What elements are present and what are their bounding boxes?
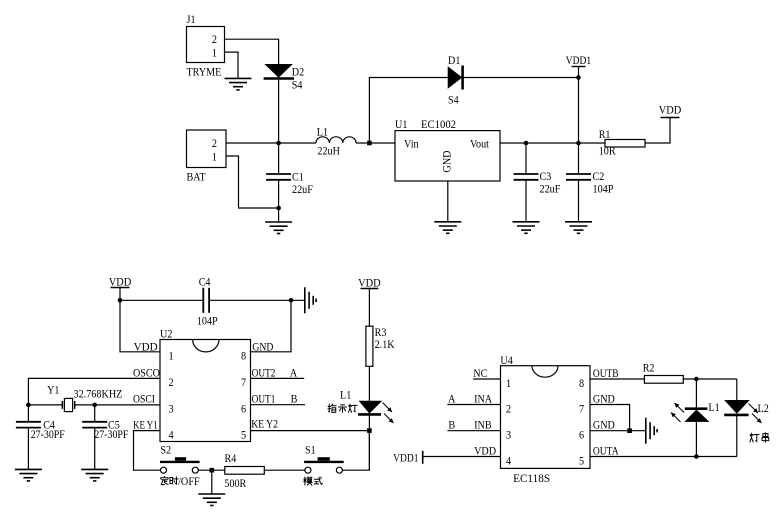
svg-text:/OFF: /OFF xyxy=(178,474,200,488)
svg-text:OUTA: OUTA xyxy=(593,443,619,457)
node L1/D1/U1 junction xyxy=(367,141,372,146)
wire R2 to LED L2 top xyxy=(683,378,737,380)
svg-text:D2: D2 xyxy=(292,65,304,79)
svg-text:VDD1: VDD1 xyxy=(566,53,591,67)
svg-text:22uF: 22uF xyxy=(292,182,313,196)
ground (C1) xyxy=(265,222,292,234)
resistor R4 500R xyxy=(224,451,264,490)
svg-text:22uF: 22uF xyxy=(540,181,561,195)
wire R4 to S1 xyxy=(264,469,305,471)
ground (C4) xyxy=(15,469,42,481)
connector J1 xyxy=(187,12,225,79)
svg-text:KE Y1: KE Y1 xyxy=(133,418,158,432)
node C1/BAT1 junction xyxy=(276,206,281,211)
wire U2 pin8 up to ground rail xyxy=(251,300,292,352)
wire R1 to VDD flag xyxy=(645,118,670,144)
label lamp string (Chinese 灯串) xyxy=(750,433,769,443)
wire U4 pin2 INA net A xyxy=(447,391,500,405)
svg-text:104P: 104P xyxy=(593,181,614,195)
resistor R1 10R xyxy=(599,127,645,158)
svg-text:2: 2 xyxy=(506,402,511,416)
svg-text:L2: L2 xyxy=(758,401,769,415)
svg-text:J1: J1 xyxy=(187,12,196,26)
svg-text:500R: 500R xyxy=(224,476,246,490)
svg-text:GND: GND xyxy=(593,391,615,405)
svg-text:3: 3 xyxy=(506,428,511,442)
wire U2 pin6 OUT1 net B xyxy=(251,392,306,406)
LED L1 (reverse) xyxy=(671,379,720,457)
inductor L1 22uH xyxy=(316,125,395,158)
capacitor C4 104P (decoupling) xyxy=(197,275,218,328)
svg-text:OUTB: OUTB xyxy=(593,366,619,380)
svg-text:27-30PF: 27-30PF xyxy=(31,427,65,441)
svg-text:EC118S: EC118S xyxy=(513,471,550,485)
node R4/ground junction xyxy=(210,468,215,473)
svg-text:7: 7 xyxy=(241,375,246,389)
svg-text:4: 4 xyxy=(168,427,173,441)
diode D1 S4 xyxy=(448,53,463,107)
svg-text:BAT: BAT xyxy=(187,170,207,184)
capacitor C4 27-30PF xyxy=(16,405,65,470)
svg-text:1: 1 xyxy=(212,46,217,60)
svg-text:22uH: 22uH xyxy=(317,144,340,158)
capacitor C3 22uF xyxy=(514,141,561,222)
ground (right of C4, rotated) xyxy=(305,287,316,313)
svg-text:VDD: VDD xyxy=(358,276,381,290)
ground (C2) xyxy=(565,222,592,234)
wire U4 pin1 NC stub xyxy=(473,366,500,380)
svg-text:GND: GND xyxy=(440,150,454,172)
node GND pins junction xyxy=(627,428,632,433)
svg-text:L1: L1 xyxy=(340,387,351,401)
wire S1 up to KE Y2 node xyxy=(342,431,369,471)
svg-text:1: 1 xyxy=(168,349,173,363)
svg-text:2: 2 xyxy=(212,136,217,150)
svg-text:A: A xyxy=(290,365,298,379)
svg-text:VDD1: VDD1 xyxy=(393,450,418,464)
label indicator LED (Chinese) xyxy=(328,404,357,412)
svg-text:D1: D1 xyxy=(448,53,460,67)
resistor R2 xyxy=(643,360,684,383)
node VDD1/D1 junction xyxy=(576,75,581,80)
ground (S2/R4) xyxy=(198,494,225,506)
svg-text:1: 1 xyxy=(506,376,511,390)
ground (C5) xyxy=(81,469,108,481)
node R2/L1 junction xyxy=(694,377,699,382)
svg-text:104P: 104P xyxy=(197,313,218,327)
wire U2 pin2 OSCO to crystal node xyxy=(28,365,160,405)
wire U4 pin5 OUTA to LEDs xyxy=(590,443,737,457)
pin label VDD (U2 pin1) xyxy=(134,340,158,354)
wire VDD down to U2 pin1 xyxy=(120,300,160,352)
svg-text:C4: C4 xyxy=(199,275,211,289)
svg-text:VDD: VDD xyxy=(134,340,158,354)
svg-text:6: 6 xyxy=(241,402,246,416)
LED L1 indicator xyxy=(340,387,394,470)
power VDD1 flag (U4 pin4) xyxy=(393,443,500,464)
svg-text:OSCI: OSCI xyxy=(133,392,155,406)
node KE Y2 / LED / S1 junction xyxy=(367,428,372,433)
svg-text:S1: S1 xyxy=(305,443,316,457)
switch S2 xyxy=(160,443,200,474)
IC U2 xyxy=(160,327,251,442)
wire D1 cathode to VDD1 node xyxy=(463,77,579,79)
svg-text:32.768KHZ: 32.768KHZ xyxy=(74,387,123,401)
label S2 (Chinese 定时/OFF) xyxy=(161,474,200,488)
svg-text:A: A xyxy=(448,391,456,405)
node VDD/U2 pin1 junction xyxy=(118,298,123,303)
wire U2 pin4 KE Y1 down to S2 xyxy=(133,418,161,471)
svg-text:GND: GND xyxy=(593,418,615,432)
svg-text:OSCO: OSCO xyxy=(133,365,160,379)
resistor R3 2.1K xyxy=(366,325,395,366)
node Y1 right / C5 xyxy=(92,403,97,408)
wire BAT pin2 to node xyxy=(226,142,316,144)
wire S2 to R4 xyxy=(198,469,225,471)
wire node down to ground xyxy=(211,470,213,494)
svg-text:S4: S4 xyxy=(448,93,459,107)
svg-text:OUT1: OUT1 xyxy=(252,392,276,406)
ground (U1) xyxy=(434,222,461,234)
switch S1 xyxy=(304,443,344,474)
wire U2 pin7 OUT2 net A xyxy=(251,365,305,379)
svg-text:NC: NC xyxy=(473,366,487,380)
svg-text:L1: L1 xyxy=(708,400,719,414)
wire U2 pin5 KE Y2 to LED node xyxy=(251,417,370,431)
svg-text:Vout: Vout xyxy=(470,137,490,151)
svg-text:R1: R1 xyxy=(599,127,611,141)
wire U2 pin3 OSCI to crystal right node xyxy=(95,392,160,406)
wire U1 Vout to rail xyxy=(500,142,605,144)
svg-text:3: 3 xyxy=(168,402,173,416)
svg-text:2: 2 xyxy=(168,375,173,389)
wire node up to D1 anode xyxy=(369,78,448,144)
wire J1 pin2 to D2 xyxy=(225,39,279,64)
svg-text:4: 4 xyxy=(506,454,511,468)
svg-text:10R: 10R xyxy=(599,144,616,158)
svg-text:TRYME: TRYME xyxy=(187,65,222,79)
capacitor C1 22uF xyxy=(266,143,313,222)
svg-text:R4: R4 xyxy=(225,451,237,465)
svg-text:B: B xyxy=(448,418,455,432)
svg-text:VDD: VDD xyxy=(109,275,132,289)
svg-text:7: 7 xyxy=(579,402,584,416)
wire U4 pin6 GND to ground xyxy=(590,418,646,432)
svg-text:OUT2: OUT2 xyxy=(252,365,276,379)
svg-text:5: 5 xyxy=(241,427,246,441)
label S1 (Chinese 模式) xyxy=(304,477,323,485)
wire BAT pin1 down to C1 ground node xyxy=(226,156,279,208)
svg-text:6: 6 xyxy=(579,428,584,442)
svg-text:U4: U4 xyxy=(500,353,512,367)
wire VDD rail to C4 xyxy=(120,299,203,301)
wire R3 to LED L1 xyxy=(368,366,370,401)
wire U1 GND pin down xyxy=(447,181,449,222)
svg-text:S2: S2 xyxy=(160,443,171,457)
wire U4 pin7 GND to pin6 xyxy=(590,391,630,430)
svg-text:R2: R2 xyxy=(643,360,655,374)
connector J2 BAT xyxy=(187,130,227,184)
svg-text:8: 8 xyxy=(579,376,584,390)
svg-text:L1: L1 xyxy=(317,125,328,139)
ground (J1 pin1) xyxy=(225,78,252,90)
power VDD1 flag xyxy=(566,53,591,143)
svg-text:Vin: Vin xyxy=(404,137,419,151)
wire U4 pin3 INB net B xyxy=(447,418,500,432)
node BAT/D2/C1/L1 junction xyxy=(276,141,281,146)
svg-text:INB: INB xyxy=(474,418,492,432)
node Y1 left / C4 xyxy=(26,403,31,408)
svg-text:5: 5 xyxy=(579,454,584,468)
diode D2 S4 xyxy=(264,64,305,91)
power VDD flag (top right) xyxy=(659,103,682,118)
svg-text:KE Y2: KE Y2 xyxy=(251,417,278,431)
capacitor C2 104P xyxy=(566,141,614,222)
svg-text:8: 8 xyxy=(241,349,246,363)
svg-text:EC1002: EC1002 xyxy=(421,117,456,131)
svg-text:S4: S4 xyxy=(292,78,303,92)
svg-text:VDD: VDD xyxy=(659,103,682,117)
pin label GND (U2 pin8) xyxy=(252,340,273,354)
svg-text:U2: U2 xyxy=(160,327,172,341)
node GND rail/U2 pin8 junction xyxy=(289,298,294,303)
svg-text:Y1: Y1 xyxy=(47,383,59,397)
node OUTA/L1 junction xyxy=(694,454,699,459)
wire J1 pin1 to ground xyxy=(225,52,239,78)
ground (C3) xyxy=(513,222,540,234)
svg-text:2.1K: 2.1K xyxy=(375,337,395,351)
IC U4 EC118S xyxy=(500,353,590,485)
wire D2 cathode to node xyxy=(278,80,280,143)
wire U4 pin8 OUTB to R2 xyxy=(590,366,644,380)
power VDD flag (U2 supply) xyxy=(109,275,132,301)
svg-text:1: 1 xyxy=(212,149,217,163)
svg-text:INA: INA xyxy=(474,391,492,405)
LED L2 xyxy=(724,379,769,457)
svg-text:27-30PF: 27-30PF xyxy=(94,427,128,441)
svg-text:2: 2 xyxy=(212,32,217,46)
svg-text:B: B xyxy=(291,392,298,406)
svg-text:U1: U1 xyxy=(395,117,407,131)
svg-text:GND: GND xyxy=(252,340,273,354)
power VDD flag (R3) xyxy=(358,276,381,327)
svg-text:VDD: VDD xyxy=(474,443,496,457)
capacitor C5 27-30PF xyxy=(82,405,128,470)
crystal Y1 32.768KHZ xyxy=(28,383,122,412)
wire C4 to ground xyxy=(209,299,305,301)
IC U1 EC1002 xyxy=(395,117,500,181)
ground (U4, rotated) xyxy=(646,418,657,444)
